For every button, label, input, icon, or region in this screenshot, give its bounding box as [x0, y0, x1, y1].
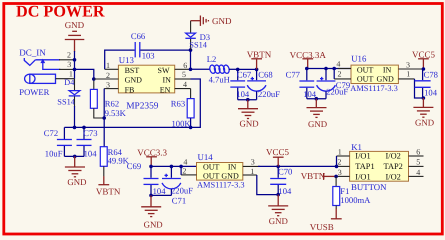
svg-text:I/O1: I/O1 [355, 173, 370, 182]
node C69 ground [149, 194, 153, 198]
pin 5 U13 IN [175, 78, 191, 80]
svg-text:D4: D4 [64, 78, 74, 87]
svg-text:OUT: OUT [203, 171, 220, 180]
power port VUSB (down, below F1) [310, 209, 342, 232]
pin 1 U13 BST [105, 68, 119, 70]
svg-text:C70: C70 [278, 167, 292, 177]
svg-text:104: 104 [278, 186, 292, 196]
power port VCC5 (top right) [412, 49, 436, 69]
node C67-C68 ground [246, 98, 250, 102]
power port VCC5 (bottom) [266, 147, 290, 166]
svg-text:104: 104 [236, 89, 250, 99]
svg-text:VBTN: VBTN [301, 171, 326, 181]
wire VIN rail (horizontal) [64, 79, 200, 127]
pin 2 U16 OUT [334, 78, 351, 80]
svg-text:6: 6 [416, 147, 420, 156]
svg-text:BUTTON: BUTTON [351, 182, 387, 192]
svg-text:C73: C73 [83, 128, 97, 138]
svg-text:VBTN: VBTN [247, 49, 272, 59]
wire (U16 GND jog to C78 bottom) [415, 79, 424, 98]
svg-text:C72: C72 [44, 128, 58, 138]
pin 3 U14 IN [243, 165, 260, 167]
pin 3 of jack [59, 68, 75, 70]
svg-text:FB: FB [125, 85, 135, 94]
ground GND (below C78) [413, 98, 434, 127]
pin 3 U13 FB [104, 88, 118, 90]
node C66/D3/SW [189, 48, 193, 52]
node C77-C79 ground [315, 97, 319, 101]
capacitor C73 104 [77, 127, 98, 158]
power port VCC3.3 (bottom left) [137, 147, 167, 166]
svg-text:GND: GND [212, 16, 232, 26]
svg-text:I/O2: I/O2 [386, 173, 401, 182]
svg-text:2: 2 [338, 69, 342, 78]
node K1 pin3/F1 [334, 175, 338, 179]
svg-text:R63: R63 [171, 99, 185, 109]
pin 4 U13 EN [175, 88, 191, 90]
svg-text:1000mA: 1000mA [340, 195, 371, 205]
fuse F1 1000mA [333, 176, 371, 209]
wire (VCC3.3 rail to U14) [151, 165, 197, 167]
svg-text:220uF: 220uF [171, 186, 193, 196]
svg-text:C67: C67 [237, 70, 252, 80]
svg-text:3: 3 [251, 157, 255, 166]
svg-text:VCC5: VCC5 [266, 147, 290, 157]
svg-text:VUSB: VUSB [310, 222, 334, 232]
capacitor C67 104 [230, 69, 252, 99]
svg-text:C69: C69 [127, 161, 141, 171]
ground GND (below C69/C71) [141, 195, 162, 229]
ground GND (top-left, above jack pin 2) [65, 20, 85, 52]
svg-text:1: 1 [406, 70, 410, 79]
node D4/VIN [73, 126, 77, 130]
pin 4 K1 [409, 175, 424, 177]
svg-text:U16: U16 [351, 53, 367, 63]
pin 1 U14 GND [243, 174, 257, 176]
pin 1 K1 [337, 155, 350, 157]
svg-text:5: 5 [182, 70, 186, 79]
ground GND (below C70) [268, 195, 288, 227]
pin 2 of jack [59, 59, 75, 61]
svg-text:C78: C78 [424, 69, 438, 79]
node C78 ground [422, 96, 426, 100]
svg-text:I/O1: I/O1 [355, 152, 370, 161]
svg-text:103: 103 [142, 50, 155, 60]
svg-text:DC_IN: DC_IN [19, 48, 46, 58]
svg-text:C71: C71 [172, 195, 186, 205]
diode D3 SS14 (catch diode) [185, 21, 210, 50]
svg-text:4: 4 [336, 60, 340, 69]
svg-text:GND: GND [269, 216, 288, 226]
resistor R64 49.9K [100, 147, 129, 177]
pin 1 U16 GND [398, 78, 414, 80]
power port VBTN (down, below R64) [96, 176, 121, 196]
node C70 ground [276, 193, 280, 197]
svg-text:BST: BST [125, 66, 140, 75]
wire (GND stem to jack pin 2) [74, 51, 76, 60]
node C69/VCC3.3 [149, 165, 153, 169]
svg-text:GND: GND [125, 76, 143, 85]
svg-text:IN: IN [163, 76, 172, 85]
svg-text:C77: C77 [286, 70, 301, 80]
node VCC5/C70 [276, 165, 280, 169]
svg-text:OUT: OUT [357, 66, 374, 75]
wire (jack pins 2-3 vertical, down to D4) [74, 60, 76, 79]
svg-text:2: 2 [182, 167, 186, 176]
svg-text:4: 4 [416, 168, 420, 177]
node U13 pin2 [92, 77, 96, 81]
svg-text:L2: L2 [207, 54, 217, 64]
svg-text:GND: GND [377, 75, 395, 84]
node K1 pin2 [335, 165, 339, 169]
svg-text:3: 3 [67, 60, 71, 69]
svg-text:5: 5 [416, 158, 420, 167]
wire (C72/C73 bottoms) [64, 155, 84, 157]
node C71 top [170, 165, 174, 169]
resistor R62 9.53K [90, 79, 126, 118]
diode D4 SS14 [57, 78, 80, 107]
svg-text:1: 1 [338, 147, 342, 156]
svg-text:TAP2: TAP2 [384, 162, 403, 171]
pin 4 U16 OUT [338, 68, 351, 70]
svg-text:104: 104 [303, 89, 317, 99]
svg-text:104: 104 [84, 148, 98, 158]
svg-text:3: 3 [106, 81, 110, 90]
svg-text:100K: 100K [172, 119, 192, 129]
svg-text:3: 3 [406, 61, 410, 70]
wire (VBTN output rail) [238, 68, 257, 70]
wire (U14 GND jog to C70 bottom) [257, 175, 278, 195]
svg-text:U14: U14 [198, 152, 214, 162]
IC U14 AMS1117-3.3 regulator [197, 152, 245, 189]
svg-text:4.7uH: 4.7uH [209, 74, 230, 84]
node C73/VIN [82, 126, 86, 130]
svg-text:2: 2 [67, 50, 71, 59]
svg-text:R62: R62 [105, 98, 119, 108]
ground GND (below C72/C73) [65, 156, 87, 187]
node SW/L2 [189, 68, 193, 72]
node C72-C73 ground [73, 155, 77, 159]
node R63/VIN [189, 126, 193, 130]
svg-text:220uF: 220uF [326, 87, 348, 97]
svg-text:C68: C68 [258, 70, 272, 80]
wire (VCC3.3A rail to U16) [307, 68, 351, 70]
wire (FB feedback column) [103, 89, 105, 147]
node VCC5/C78 [422, 67, 426, 71]
pin 6 K1 [409, 155, 424, 157]
svg-text:EN: EN [160, 85, 171, 94]
svg-text:AMS1117-3.3: AMS1117-3.3 [197, 181, 245, 190]
node jack pin3 [73, 68, 77, 72]
wire (K1 pin1 tie to pin2) [336, 156, 338, 166]
wire (D3 to SW node) [190, 50, 192, 69]
svg-text:GND: GND [67, 177, 86, 187]
pin 2 U13 GND [94, 78, 119, 80]
pin 3 K1 [336, 175, 350, 177]
wire (C77/C79 bottoms) [307, 98, 326, 100]
pin 6 U13 SW [175, 68, 191, 70]
svg-text:6: 6 [183, 61, 187, 70]
svg-text:TAP1: TAP1 [355, 162, 374, 171]
svg-text:SS14: SS14 [189, 41, 208, 50]
svg-text:GND: GND [144, 219, 163, 229]
node R62/FB [102, 116, 106, 120]
pin 2 K1 [337, 165, 350, 167]
svg-text:1: 1 [106, 61, 110, 70]
svg-text:SS14: SS14 [57, 98, 76, 107]
svg-text:I/O2: I/O2 [386, 152, 401, 161]
svg-text:K1: K1 [351, 142, 362, 152]
wire (jack pin3 net to U13 GND pin) [75, 69, 94, 79]
svg-text:VBTN: VBTN [96, 187, 121, 197]
power port VBTN (left pointing, at K1 pin3) [301, 171, 336, 181]
switch K1 BUTTON [350, 142, 409, 192]
wire (C67/C68 bottoms) [238, 99, 257, 101]
capacitor C71 220uF (polarized) [162, 166, 193, 205]
node jack pin2 [73, 58, 77, 62]
capacitor C70 104 [270, 166, 292, 196]
svg-text:GND: GND [240, 118, 259, 128]
node C68/VBTN top [255, 68, 259, 72]
node C77/VCC3.3A [305, 67, 309, 71]
wire (VCC5 rail U14 to K1) [258, 165, 337, 167]
ground GND (below C67/C68) [238, 100, 259, 129]
svg-text:VCC3.3: VCC3.3 [137, 147, 167, 157]
svg-text:9.53K: 9.53K [105, 108, 127, 118]
capacitor C78 104 [415, 69, 438, 98]
ground GND (below C77/C79) [307, 99, 328, 129]
svg-text:1: 1 [250, 167, 254, 176]
svg-text:10uF: 10uF [45, 148, 63, 158]
svg-text:OUT: OUT [357, 75, 374, 84]
svg-text:VCC5: VCC5 [412, 49, 436, 59]
capacitor C72 10uF [44, 127, 72, 158]
svg-text:4: 4 [183, 157, 187, 166]
power port VBTN (above C68) [247, 49, 272, 69]
power port VCC3.3A [290, 50, 327, 69]
pin 2 U14 OUT [181, 174, 196, 176]
svg-text:GND: GND [308, 119, 327, 129]
svg-text:104: 104 [153, 186, 167, 196]
IC U13 MP2359 buck regulator [118, 55, 174, 112]
pin 1 of jack [56, 78, 75, 80]
connector J1 DC_IN power jack [19, 48, 60, 97]
svg-text:IN: IN [383, 66, 392, 75]
svg-text:GND: GND [415, 117, 434, 127]
svg-text:104: 104 [424, 88, 438, 98]
svg-text:2: 2 [337, 158, 341, 167]
svg-text:SW: SW [158, 66, 170, 75]
pin 3 U16 IN [398, 68, 423, 70]
svg-text:POWER: POWER [19, 87, 49, 97]
capacitor C69 104 [127, 161, 166, 196]
node C67 top [236, 68, 240, 72]
svg-text:OUT: OUT [203, 163, 220, 172]
capacitor C79 220uF (polarized) [317, 69, 351, 99]
wire (D4 cathode to VIN rail) [74, 106, 76, 127]
svg-text:AMS1117-3.3: AMS1117-3.3 [350, 84, 398, 93]
svg-text:4: 4 [183, 80, 187, 89]
IC U16 AMS1117-3.3 regulator [350, 53, 398, 93]
svg-text:GND: GND [221, 171, 239, 180]
svg-text:2: 2 [106, 71, 110, 80]
svg-text:DC POWER: DC POWER [16, 2, 105, 20]
svg-text:MP2359: MP2359 [126, 101, 159, 111]
svg-text:220uF: 220uF [258, 89, 280, 99]
svg-text:C66: C66 [131, 31, 146, 41]
node C79 top [324, 67, 328, 71]
svg-text:3: 3 [338, 168, 342, 177]
svg-text:U13: U13 [119, 55, 135, 65]
wire (C69/C71 bottoms) [151, 194, 171, 196]
inductor L2 4.7uH [191, 54, 238, 84]
pin 5 K1 [409, 165, 424, 167]
capacitor C68 220uF (polarized) [247, 69, 280, 99]
svg-text:GND: GND [65, 20, 85, 30]
ground GND (top right, horizontal) [191, 16, 232, 26]
capacitor C66 103 (bootstrap) [105, 31, 191, 70]
capacitor C77 104 [286, 69, 317, 99]
svg-text:IN: IN [228, 163, 237, 172]
resistor R63 100K (EN pullup) [171, 89, 194, 129]
